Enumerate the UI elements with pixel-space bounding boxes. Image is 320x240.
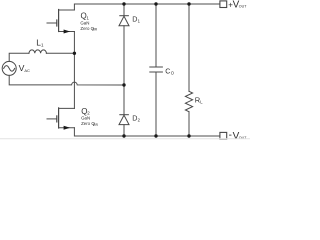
node D2 bottom rail junction <box>122 134 125 137</box>
svg-text:1: 1 <box>138 18 141 23</box>
capacitor C0 <box>150 4 163 136</box>
wire L1 to switch node <box>46 52 74 54</box>
svg-text:L: L <box>200 99 203 104</box>
node RL top rail junction <box>187 2 190 5</box>
wire top rail <box>74 4 219 10</box>
diode D2 <box>119 85 129 136</box>
resistor RL <box>185 4 192 136</box>
wire vac bottom lead with hop <box>9 75 124 85</box>
node C0 bottom rail junction <box>154 134 157 137</box>
node C0 top rail junction <box>154 2 157 5</box>
svg-text:2: 2 <box>138 117 141 122</box>
wire switch column down to Q2 drain <box>73 53 75 108</box>
svg-text:C: C <box>165 66 170 75</box>
node D1 top rail junction <box>122 2 125 5</box>
terminal +Vout box <box>220 1 227 8</box>
svg-text:GaN: GaN <box>81 116 90 121</box>
svg-text:OUT: OUT <box>239 5 247 9</box>
transistor Q2 <box>47 108 74 130</box>
wire bottom rail <box>74 128 219 136</box>
svg-text:O: O <box>171 70 175 75</box>
svg-text:RR: RR <box>93 28 98 32</box>
wire vac top lead <box>9 53 29 61</box>
terminal -Vout box <box>220 132 227 139</box>
node AC mid junction <box>122 83 125 86</box>
wire Q1 source to switch column <box>73 32 75 54</box>
svg-text:RR: RR <box>93 123 98 127</box>
vac source V_AC <box>2 61 16 75</box>
node switch junction <box>73 52 76 55</box>
inductor L1 <box>29 50 46 53</box>
wire faint page rule <box>0 138 250 140</box>
svg-text:-: - <box>229 130 232 141</box>
svg-text:1: 1 <box>41 43 44 48</box>
transistor Q1 <box>47 10 74 34</box>
diode D1 <box>119 4 129 85</box>
svg-text:AC: AC <box>24 68 30 73</box>
node RL bottom rail junction <box>187 134 190 137</box>
svg-text:GaN: GaN <box>80 20 89 25</box>
